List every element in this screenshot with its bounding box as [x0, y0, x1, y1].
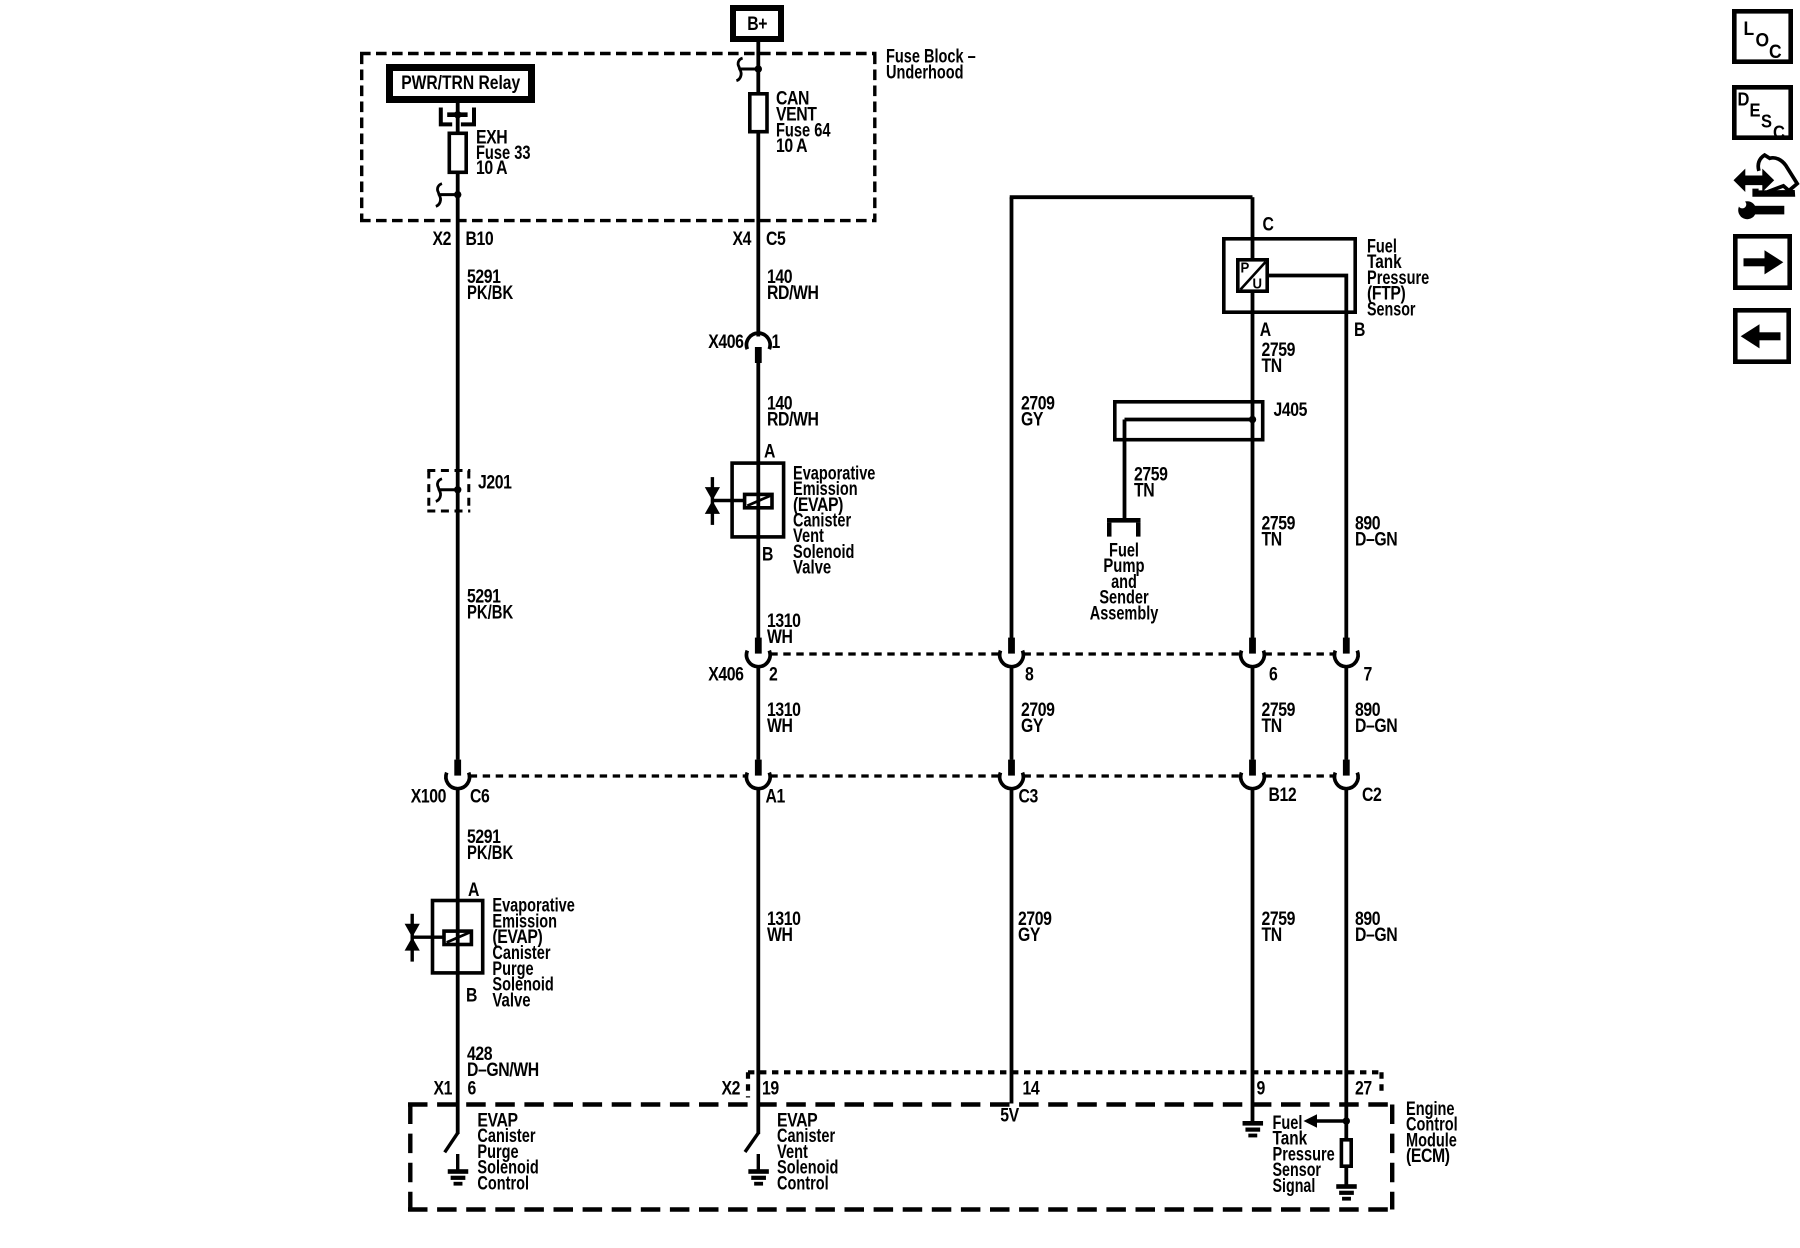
connector X406 pin 1 (in-line) [756, 258, 760, 337]
wire A1 to X2 pin 19 [756, 787, 760, 1134]
svg-text:D: D [1738, 89, 1750, 110]
ground (purge control) [456, 1154, 459, 1170]
svg-text:RD/WH: RD/WH [767, 282, 818, 304]
svg-text:(ECM): (ECM) [1406, 1145, 1450, 1167]
wire FTP A down [1251, 292, 1255, 639]
Fuel Tank Pressure (FTP) sensor box [1224, 239, 1355, 312]
driver switch (vent control) [745, 1133, 758, 1152]
PWR/TRN Relay box [390, 68, 532, 100]
svg-text:27: 27 [1355, 1077, 1372, 1099]
svg-text:8: 8 [1025, 663, 1034, 685]
svg-text:1: 1 [772, 331, 781, 353]
svg-text:TN: TN [1262, 715, 1282, 737]
svg-text:X406: X406 [708, 331, 744, 353]
wire 7 to C2 (890 D-GN) [1344, 665, 1348, 760]
wire EXH fuse to clip [456, 172, 460, 195]
wire purge solenoid to X1 pin 6 [456, 973, 460, 1134]
svg-text:B: B [466, 984, 477, 1006]
wire X2 to J201 [456, 258, 460, 470]
connector row X100 dashed line [470, 774, 747, 777]
driver switch (purge control) [445, 1133, 458, 1152]
LOC icon box [1734, 11, 1790, 61]
svg-text:19: 19 [762, 1077, 779, 1099]
svg-text:D–GN/WH: D–GN/WH [467, 1059, 539, 1081]
svg-text:L: L [1744, 17, 1754, 39]
svg-text:GY: GY [1018, 924, 1041, 946]
svg-text:C: C [1263, 213, 1275, 235]
EVAP canister vent solenoid valve [732, 463, 784, 537]
wire J201 to X100 [456, 470, 460, 760]
svg-text:PWR/TRN Relay: PWR/TRN Relay [401, 72, 520, 94]
FTP pressure transducer P/U symbol [1238, 260, 1267, 291]
wire relay to EXH fuse [456, 103, 460, 133]
splice J405 box [1115, 402, 1263, 440]
wire X406-1 to vent solenoid [756, 363, 760, 463]
wire C6 to purge solenoid [456, 787, 460, 901]
svg-text:S: S [1761, 111, 1772, 132]
svg-text:WH: WH [767, 924, 793, 946]
svg-text:PK/BK: PK/BK [467, 601, 514, 623]
svg-text:B: B [762, 543, 773, 565]
svg-text:C: C [1769, 40, 1781, 62]
svg-text:Valve: Valve [793, 556, 831, 578]
svg-text:5V: 5V [1000, 1104, 1019, 1126]
svg-text:A: A [1260, 319, 1272, 341]
connector X100 pin B12 [1249, 760, 1256, 776]
svg-text:D–GN: D–GN [1355, 715, 1397, 737]
svg-text:14: 14 [1023, 1077, 1040, 1099]
splice J201 clip [436, 479, 442, 502]
wire X406-2 to X100 (1310 WH) [756, 665, 760, 760]
connector X100 pin C6 [454, 760, 461, 776]
repair/replace tool icon [1734, 169, 1775, 192]
svg-text:X100: X100 [411, 785, 446, 807]
svg-text:GY: GY [1021, 408, 1044, 430]
wire CAN VENT fuse to X4 C5 exit [756, 132, 760, 258]
svg-text:X406: X406 [708, 663, 744, 685]
svg-text:PK/BK: PK/BK [467, 842, 514, 864]
connector X406 pin 8 [1008, 638, 1015, 654]
svg-text:WH: WH [767, 626, 793, 648]
svg-text:RD/WH: RD/WH [767, 408, 818, 430]
ground (FTP signal) [1336, 1184, 1357, 1189]
svg-text:C5: C5 [766, 228, 786, 250]
svg-text:X1: X1 [433, 1077, 452, 1099]
svg-text:Control: Control [477, 1172, 529, 1194]
DESC icon box [1734, 87, 1790, 137]
wire C into FTP sensor [1251, 197, 1255, 260]
wire FTP B to 890 D-GN [1268, 276, 1346, 639]
svg-text:Valve: Valve [492, 989, 530, 1011]
wire B+ to clip [756, 42, 760, 69]
svg-text:B+: B+ [747, 13, 767, 35]
svg-text:TN: TN [1262, 528, 1282, 550]
svg-text:6: 6 [468, 1077, 477, 1099]
connector X2 dashed boundary [748, 1070, 1383, 1074]
previous page arrow icon box [1735, 310, 1788, 361]
svg-text:C6: C6 [470, 785, 490, 807]
svg-text:C2: C2 [1362, 784, 1381, 806]
svg-text:6: 6 [1269, 663, 1278, 685]
svg-text:TN: TN [1262, 355, 1282, 377]
ground (pin 9 FTP sensor ground) [1243, 1121, 1264, 1126]
svg-text:D–GN: D–GN [1355, 528, 1397, 550]
wire clip to CAN VENT fuse [756, 69, 760, 93]
svg-text:D–GN: D–GN [1355, 924, 1397, 946]
fuse block dashed outline (Fuse Block - Underhood) [360, 52, 877, 55]
wire top bus 2709 GY horizontal [1010, 195, 1253, 199]
svg-text:A: A [764, 440, 776, 462]
connector X406 pin 2 [755, 638, 762, 654]
svg-text:PK/BK: PK/BK [467, 282, 514, 304]
connector X100 pin C3 [1008, 760, 1015, 776]
splice J405 branch wire [1125, 418, 1253, 422]
wire clip to X2 B10 exit [456, 195, 460, 258]
connector X100 pin A1 [755, 760, 762, 776]
svg-text:C3: C3 [1019, 785, 1039, 807]
connector row X406 dashed line [770, 652, 999, 655]
svg-text:Underhood: Underhood [886, 61, 964, 83]
svg-text:B12: B12 [1269, 784, 1297, 806]
wire 2709 GY vertical [1010, 197, 1014, 638]
fuse CAN VENT Fuse 64 10A [750, 94, 767, 132]
svg-text:Control: Control [777, 1172, 829, 1194]
svg-text:TN: TN [1262, 924, 1282, 946]
ground (vent control) [757, 1154, 760, 1170]
svg-text:J201: J201 [478, 471, 512, 493]
svg-text:O: O [1756, 29, 1769, 51]
connector X100 pin C2 [1343, 760, 1350, 776]
fuse EXH Fuse 33 10A [449, 133, 466, 172]
svg-text:J405: J405 [1274, 399, 1308, 421]
svg-text:B: B [1354, 319, 1365, 341]
wire 8 to C3 (2709 GY) [1010, 665, 1014, 760]
wire C2 to X2 pin 27 [1344, 787, 1348, 1121]
svg-text:Signal: Signal [1273, 1175, 1316, 1197]
svg-text:X2: X2 [721, 1077, 740, 1099]
connector X406 pin 6 [1249, 638, 1256, 654]
relay terminal bracket [441, 108, 452, 125]
svg-text:GY: GY [1021, 715, 1044, 737]
svg-text:E: E [1750, 100, 1761, 121]
FTP sensor signal arrow [1313, 1119, 1346, 1123]
svg-text:2: 2 [769, 663, 777, 685]
svg-text:P: P [1241, 259, 1250, 276]
wire B12 to X2 pin 9 [1251, 787, 1255, 1121]
svg-text:10 A: 10 A [776, 135, 808, 157]
svg-text:Assembly: Assembly [1090, 602, 1159, 624]
svg-text:X2: X2 [432, 228, 451, 250]
connector X406 pin 7 [1343, 638, 1350, 654]
svg-text:B10: B10 [466, 228, 494, 250]
resistor (FTP signal pull-up) [1344, 1121, 1348, 1139]
wire C3 to X2 pin 14 [1010, 787, 1014, 1103]
B+ battery feed box [733, 8, 781, 39]
svg-text:9: 9 [1257, 1077, 1266, 1099]
EVAP canister purge solenoid valve [433, 901, 483, 973]
wire 6 to B12 (2759 TN) [1251, 665, 1255, 760]
svg-text:X4: X4 [732, 228, 751, 250]
wire vent solenoid to X406 pin 2 [756, 537, 760, 639]
fuse block clip (EXH) [436, 184, 442, 207]
svg-text:10 A: 10 A [476, 157, 508, 179]
svg-text:A1: A1 [766, 785, 786, 807]
svg-text:TN: TN [1134, 479, 1154, 501]
Engine Control Module (ECM) dashed box [408, 1102, 1395, 1106]
svg-text:7: 7 [1364, 663, 1372, 685]
fuel pump connector bracket [1107, 518, 1141, 523]
svg-text:A: A [468, 879, 480, 901]
fuse block clip (B+ feed) [736, 58, 742, 81]
next page arrow icon box [1735, 236, 1789, 287]
svg-text:WH: WH [767, 715, 793, 737]
svg-text:Sensor: Sensor [1367, 298, 1416, 320]
svg-text:C: C [1773, 122, 1785, 143]
svg-text:U: U [1253, 275, 1263, 292]
splice J201 dashed box [427, 469, 470, 472]
